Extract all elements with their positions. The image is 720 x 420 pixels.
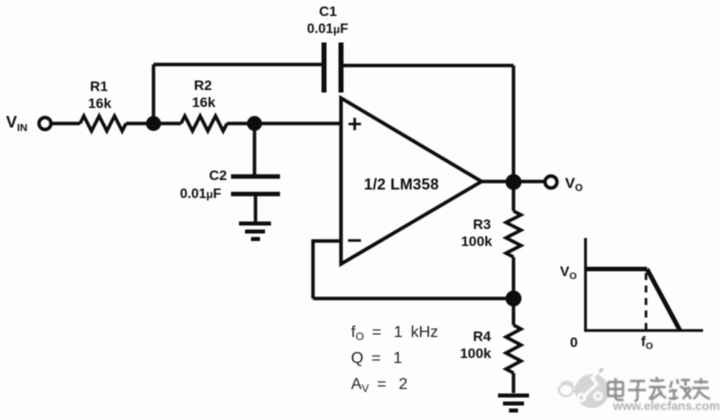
svg-text:R1: R1 bbox=[90, 78, 108, 94]
svg-text:0.01μF: 0.01μF bbox=[180, 186, 221, 201]
svg-text:100k: 100k bbox=[460, 345, 491, 361]
resistor R3 bbox=[506, 211, 521, 257]
svg-text:C2: C2 bbox=[209, 167, 227, 183]
svg-text:R4: R4 bbox=[473, 328, 491, 344]
wire input to R1 bbox=[52, 122, 81, 125]
wire R3 to node C bbox=[512, 257, 515, 325]
wire R4 to ground bbox=[512, 373, 515, 393]
node A junction bbox=[146, 116, 161, 131]
graph x-axis bbox=[584, 329, 703, 332]
node B junction bbox=[247, 116, 262, 131]
wire feedback to node C bbox=[313, 297, 514, 300]
wire node A up to top feedback bbox=[152, 65, 155, 124]
wire feedback down bbox=[311, 239, 314, 298]
op-amp U1 1/2 LM358 bbox=[341, 98, 482, 264]
wire top feedback to C1 bbox=[154, 63, 323, 66]
node output junction bbox=[506, 174, 522, 190]
graph y-axis bbox=[584, 238, 587, 331]
resistor R4 bbox=[506, 325, 521, 373]
svg-text:AV = 2: AV = 2 bbox=[351, 376, 408, 395]
svg-text:R3: R3 bbox=[473, 216, 491, 232]
ground (R4) bbox=[498, 396, 529, 411]
terminal output bbox=[545, 176, 557, 188]
pin - (inverting) bbox=[348, 239, 361, 242]
watermark small mark left bbox=[559, 382, 576, 396]
pin + (non-inverting) bbox=[349, 118, 362, 131]
svg-text:C1: C1 bbox=[319, 3, 337, 19]
wire node B down to C2 bbox=[253, 124, 256, 176]
capacitor C2 bbox=[231, 177, 280, 195]
node C junction bbox=[506, 291, 522, 307]
resistor R1 bbox=[80, 116, 126, 131]
svg-text:R2: R2 bbox=[194, 77, 212, 93]
watermark group bbox=[559, 369, 720, 413]
wire op-amp output to terminal bbox=[482, 180, 545, 183]
watermark chinese text 电子发烧友 bbox=[608, 377, 710, 401]
wire R2 to op-amp bbox=[227, 122, 341, 125]
svg-text:Q = 1: Q = 1 bbox=[351, 350, 402, 367]
wire output rail down to output node bbox=[512, 66, 515, 183]
svg-text:www.elecfans.com: www.elecfans.com bbox=[612, 399, 720, 413]
svg-text:0: 0 bbox=[570, 334, 578, 350]
terminal input bbox=[39, 118, 51, 130]
wire output node to R3 bbox=[512, 182, 515, 211]
wire - input to feedback bbox=[313, 239, 341, 242]
capacitor C1 bbox=[324, 43, 341, 93]
wire R1 to node A bbox=[126, 122, 181, 125]
wire C1 to output rail bbox=[344, 64, 514, 67]
ground (C2) bbox=[239, 224, 271, 240]
resistor R2 bbox=[181, 116, 227, 131]
svg-text:16k: 16k bbox=[192, 94, 216, 110]
graph dashed line at fO bbox=[645, 273, 648, 330]
svg-text:100k: 100k bbox=[461, 233, 492, 249]
wire C2 to ground bbox=[254, 195, 257, 222]
watermark logo circle bbox=[575, 374, 609, 408]
watermark logo tail bbox=[596, 369, 603, 376]
svg-text:1/2 LM358: 1/2 LM358 bbox=[364, 177, 439, 194]
svg-text:fO = 1 kHz: fO = 1 kHz bbox=[351, 324, 438, 343]
graph response curve rolloff bbox=[647, 269, 680, 331]
svg-text:16k: 16k bbox=[88, 95, 112, 111]
svg-text:0.01μF: 0.01μF bbox=[307, 21, 348, 36]
graph response curve flat bbox=[586, 267, 648, 272]
